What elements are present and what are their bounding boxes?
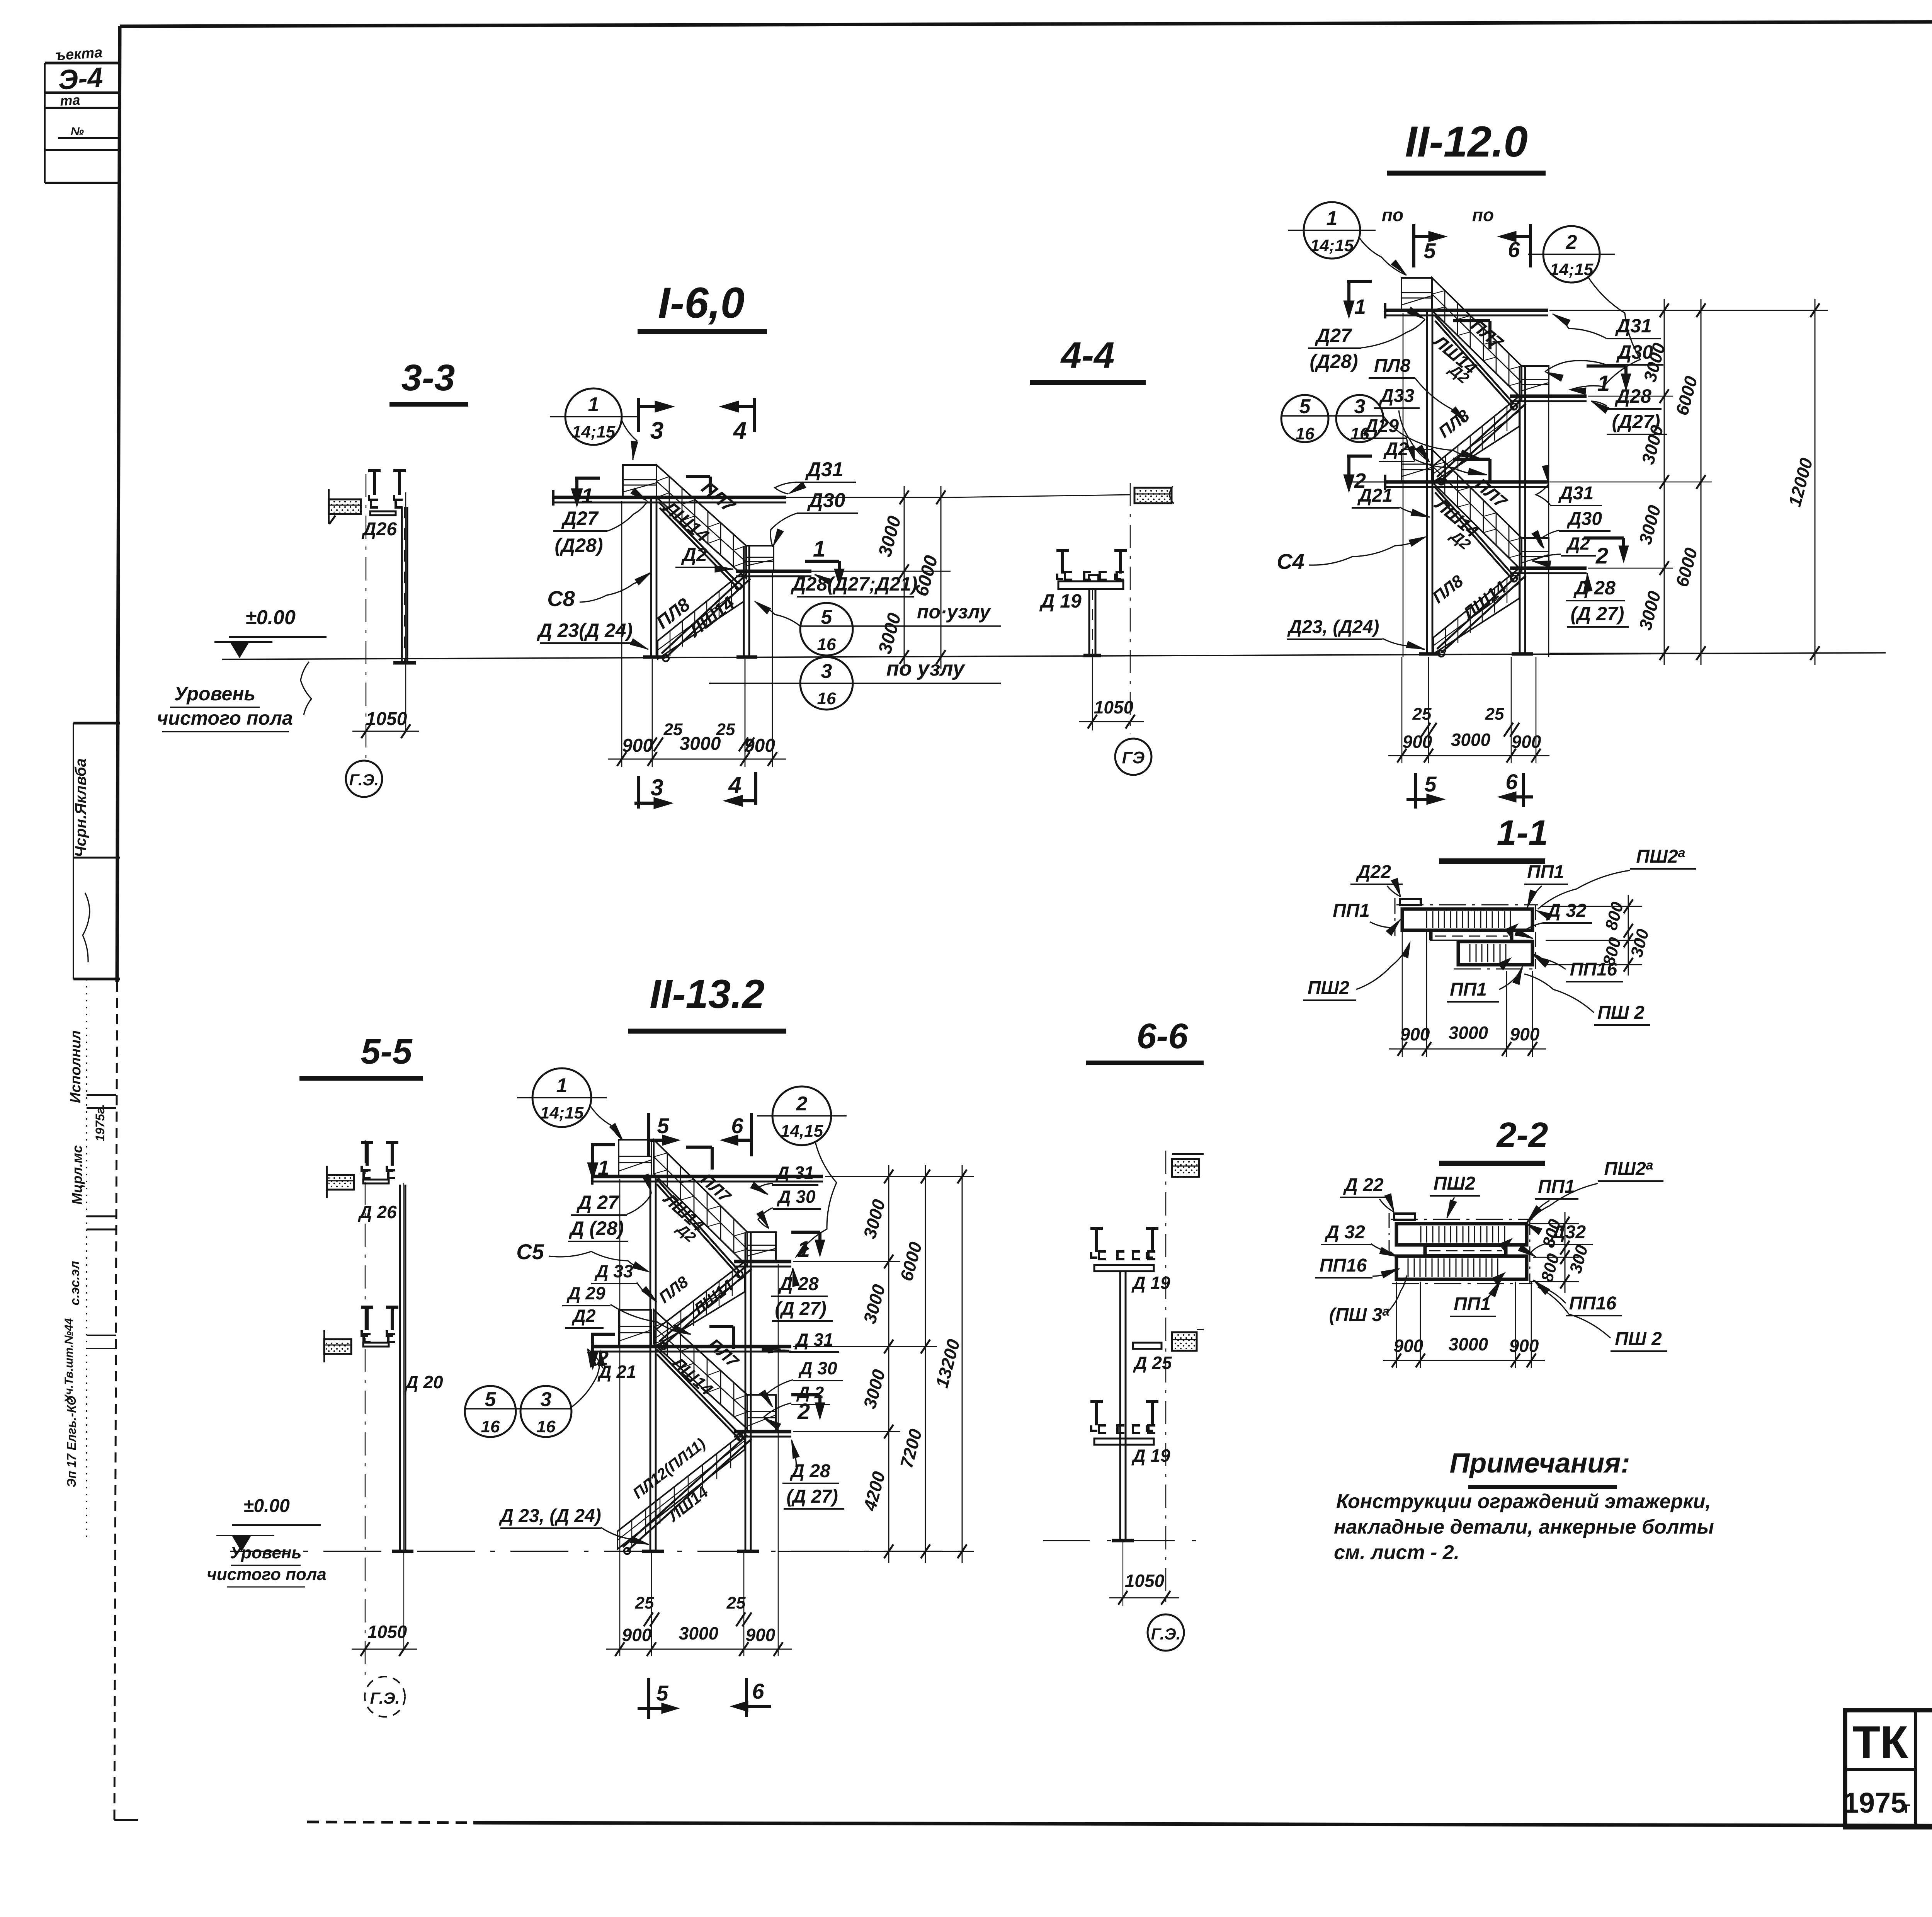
section mark 1 (right mid, pointing down)	[805, 536, 844, 586]
svg-text:3: 3	[650, 775, 663, 800]
middle platform beam	[736, 571, 811, 576]
platform beam cross-section (hatched) 4-4	[1134, 486, 1174, 504]
svg-text:6: 6	[752, 1679, 764, 1703]
drawing title II-12.0	[1387, 117, 1546, 173]
title block outer frame	[1845, 1710, 1932, 1827]
detail circle 2/14,15 II-13.2	[757, 1086, 847, 1258]
labels of 1-1 top right	[1524, 846, 1696, 920]
svg-text:6-6: 6-6	[1137, 1016, 1189, 1056]
axis circle G.E. 6-6	[1148, 1614, 1184, 1651]
title block TK cell	[1843, 1710, 1916, 1827]
svg-text:Д31: Д31	[1558, 483, 1594, 504]
ground line (floor level) under I-6.0 / II-12.0 / sections 3-3 and 4-4	[222, 653, 1886, 659]
flight 4 LSh20 long II-13.2	[617, 1432, 752, 1554]
svg-text:14;15: 14;15	[540, 1103, 584, 1122]
label D28(D27;D21)	[790, 573, 917, 597]
label D23,(D24) II-13.2	[498, 1506, 649, 1544]
svg-text:14,15: 14,15	[781, 1122, 823, 1141]
svg-text:3000: 3000	[1449, 1334, 1488, 1354]
labels D28 (D27) right II-13.2	[771, 1268, 833, 1321]
plate 5-5 mid	[363, 1343, 389, 1347]
labels D29 D2 II-13.2	[562, 1283, 691, 1334]
svg-text:16: 16	[817, 635, 836, 654]
svg-text:ПП1: ПП1	[1450, 979, 1487, 1000]
bottom dim extensions II-13.2	[651, 1553, 744, 1656]
svg-text:900: 900	[622, 735, 653, 756]
detail circle 2/14;15 of II-12.0	[1528, 226, 1640, 395]
svg-text:16: 16	[817, 689, 836, 708]
notes text	[1334, 1490, 1714, 1564]
dim 1050 6-6	[1109, 1542, 1179, 1606]
cut elbow mid II-13.2	[709, 1326, 733, 1349]
labels of 1-1 right	[1515, 901, 1650, 1025]
stair flight LSh14 lower (with rails PL8)	[658, 571, 750, 661]
svg-text:1975г.: 1975г.	[93, 1104, 107, 1142]
flight rotated labels story1 lower	[1435, 406, 1473, 441]
svg-text:Д 23(Д 24): Д 23(Д 24)	[537, 620, 633, 641]
section mark 6 bottom II-12.0	[1498, 770, 1533, 807]
svg-text:С5: С5	[516, 1239, 544, 1264]
label D33 II-12.0	[1374, 386, 1430, 462]
svg-text:Д 22: Д 22	[1343, 1175, 1384, 1195]
svg-text:ПШ2: ПШ2	[1434, 1173, 1476, 1194]
svg-text:2: 2	[1595, 543, 1608, 569]
label D19 of 4-4	[1039, 590, 1082, 612]
label D33 II-13.2	[591, 1261, 657, 1302]
svg-text:5: 5	[821, 606, 833, 628]
labels of 2-2 top	[1340, 1158, 1663, 1235]
labels of 2-2 right	[1518, 1222, 1667, 1351]
section mark 1 right II-13.2	[791, 1232, 825, 1262]
flight 1 LSh14 II-13.2	[654, 1140, 747, 1277]
svg-text:по: по	[1472, 205, 1494, 225]
svg-text:Уровень: Уровень	[174, 683, 255, 705]
top beam II-13.2	[591, 1169, 823, 1185]
small 25 offset dims	[648, 720, 754, 751]
drawing title I-6,0	[638, 279, 767, 332]
top landing box II-13.2	[619, 1140, 651, 1176]
labels of 1-1 left	[1303, 862, 1410, 1000]
cut elbow 2 inside II-12.0	[1453, 459, 1490, 483]
svg-text:Д33: Д33	[1379, 386, 1414, 406]
stair flight LSh14 upper (with rails PL7)	[656, 465, 746, 589]
top landing platform PSh2	[623, 465, 656, 497]
labels D31/D30 right top II-12.0	[1545, 314, 1663, 381]
label D23(D24)	[537, 620, 648, 649]
floor label 5-5	[207, 1543, 327, 1587]
svg-text:2: 2	[1566, 231, 1577, 254]
svg-text:1975: 1975	[1843, 1787, 1907, 1819]
svg-text:1050: 1050	[367, 1622, 407, 1642]
svg-text:та: та	[60, 92, 80, 109]
column right (under middle landing)	[744, 546, 749, 657]
node circle 3/16 with leader	[709, 657, 1001, 710]
section mark 1 left of II-12.0	[1344, 281, 1372, 318]
svg-text:ПШ2а: ПШ2а	[1604, 1158, 1653, 1179]
channel profiles pair 4-4	[1056, 550, 1127, 580]
svg-text:25: 25	[716, 720, 735, 739]
flight rotated labels story2 lower	[1429, 571, 1510, 624]
level-2 beam II-13.2	[591, 1339, 791, 1355]
svg-text:16: 16	[1296, 424, 1315, 443]
svg-text:3000: 3000	[1451, 730, 1491, 750]
label D27 (D28) left	[553, 488, 648, 556]
svg-text:(ПШ 3а: (ПШ 3а	[1329, 1304, 1389, 1325]
dim line 6000x2 II-12.0	[1672, 299, 1706, 665]
svg-text:4: 4	[733, 417, 747, 444]
drawing title II-13.2	[628, 972, 786, 1031]
small 25 dims II-13.2	[635, 1594, 752, 1626]
label C4 with wavy leader	[1277, 536, 1427, 574]
svg-text:900: 900	[622, 1625, 652, 1645]
dim extension lines II-13.2	[620, 1176, 974, 1656]
svg-text:ПП16: ПП16	[1320, 1255, 1367, 1276]
svg-text:ПП1: ПП1	[1454, 1294, 1491, 1314]
level mark +-0.00	[214, 606, 327, 657]
svg-text:Д (28): Д (28)	[569, 1217, 624, 1239]
cut elbow of section 1-1 inside I-6.0	[686, 477, 710, 493]
leader from circle 1 to top landing	[621, 419, 638, 460]
svg-text:Д30: Д30	[1566, 509, 1602, 529]
svg-text:3000: 3000	[1449, 1023, 1488, 1043]
labels D27 (D28) left II-12.0	[1308, 307, 1425, 372]
svg-text:чистого пола: чистого пола	[157, 707, 293, 729]
rotated flight labels II-13.2 upper	[659, 1170, 735, 1246]
svg-text:Д 23, (Д 24): Д 23, (Д 24)	[498, 1506, 601, 1526]
axis line of 3-3	[366, 474, 406, 763]
svg-text:5: 5	[656, 1681, 668, 1705]
label D26	[361, 519, 397, 540]
svg-text:Д 19: Д 19	[1131, 1273, 1170, 1293]
svg-text:2-2: 2-2	[1496, 1115, 1548, 1155]
svg-text:5: 5	[485, 1388, 497, 1411]
adjacent beam end hatched 5-5 top	[327, 1166, 354, 1198]
section title 2-2	[1439, 1115, 1548, 1163]
level-2 beam II-12.0	[1350, 475, 1548, 490]
label D30 with leader	[770, 489, 858, 547]
flight 1 LSh14 II-12.0	[1432, 278, 1522, 410]
section title 4-4	[1030, 335, 1146, 383]
detail circle 1/14;15 II-13.2	[517, 1068, 623, 1140]
section title 3-3	[389, 357, 468, 404]
platform plan assembly of 2-2	[1389, 1213, 1532, 1285]
detail circle 1/14;15 of II-12.0	[1288, 202, 1406, 275]
cut elbow top II-13.2	[686, 1147, 712, 1170]
svg-text:Мцрл.мс: Мцрл.мс	[69, 1145, 85, 1205]
svg-text:ПП1: ПП1	[1333, 901, 1370, 921]
top landing box II-12.0	[1401, 278, 1432, 310]
svg-text:Конструкции ограждений этаже: Конструкции ограждений этажерки,	[1336, 1490, 1711, 1513]
notes heading Primechaniya	[1449, 1448, 1630, 1487]
svg-text:II-13.2: II-13.2	[650, 972, 765, 1017]
mark po-6 (top)	[1472, 205, 1531, 267]
label D30 second right II-13.2	[759, 1358, 843, 1407]
svg-text:(Д 27): (Д 27)	[1571, 603, 1624, 625]
svg-text:Д 30: Д 30	[776, 1187, 816, 1207]
svg-text:Д2: Д2	[1383, 439, 1408, 460]
level-2 landing box II-13.2	[619, 1310, 651, 1347]
svg-text:ПЛ8: ПЛ8	[1374, 356, 1411, 376]
section mark 2 right II-13.2	[791, 1395, 825, 1424]
node circle 5/16 with leader	[754, 601, 1001, 655]
axis circle G.E. of 3-3	[346, 761, 382, 797]
section mark 1 left II-13.2	[587, 1145, 615, 1180]
svg-text:Г.Э.: Г.Э.	[1151, 1625, 1181, 1643]
svg-text:25: 25	[726, 1594, 746, 1612]
rotated flight labels II-13.2 f2	[655, 1272, 736, 1319]
svg-text:14;15: 14;15	[1550, 260, 1594, 279]
labels of 2-2 bottom	[1450, 1279, 1501, 1316]
svg-text:ПШ 2: ПШ 2	[1615, 1329, 1662, 1349]
hatched block top right 6-6	[1172, 1154, 1204, 1177]
mid landing 1 beam	[1510, 396, 1587, 401]
sheet frame bottom border	[307, 1822, 1932, 1827]
svg-text:1050: 1050	[1125, 1571, 1165, 1591]
label D2 left II-12.0	[1379, 439, 1487, 475]
svg-text:16: 16	[537, 1417, 556, 1436]
dim line 3000x4 II-12.0	[1635, 299, 1669, 665]
section mark 2 left of II-12.0	[1344, 456, 1372, 492]
svg-text:II-12.0: II-12.0	[1405, 117, 1528, 166]
svg-text:900: 900	[1510, 1024, 1540, 1044]
svg-text:(Д28): (Д28)	[1310, 351, 1358, 372]
svg-text:Д28(Д27;Д21): Д28(Д27;Д21)	[790, 573, 917, 595]
section mark 1 right mid II-12.0	[1587, 366, 1631, 396]
svg-text:С4: С4	[1277, 549, 1304, 574]
label PL8 II-12.0	[1369, 356, 1466, 422]
svg-text:по узлу: по узлу	[886, 657, 966, 680]
axis line of 4-4	[1130, 483, 1131, 734]
channel profiles assembly-1 6-6	[1090, 1228, 1158, 1271]
svg-text:25: 25	[635, 1594, 654, 1612]
mid landing 2 box II-13.2	[747, 1395, 776, 1432]
svg-text:1: 1	[1327, 207, 1338, 230]
svg-text:Д 19: Д 19	[1131, 1445, 1170, 1466]
vertical dimension line 6000	[912, 486, 946, 669]
svg-text:1: 1	[588, 393, 599, 416]
label D26 5-5	[357, 1202, 397, 1222]
svg-text:Д2: Д2	[681, 544, 707, 565]
flight 4 (down-left) II-12.0	[1433, 568, 1526, 657]
svg-text:14;15: 14;15	[1310, 236, 1354, 255]
mid landing 1 beam II-13.2	[734, 1262, 791, 1267]
svg-text:ГЭ: ГЭ	[1122, 748, 1145, 767]
svg-text:4: 4	[728, 772, 741, 798]
label D31 second right II-13.2	[762, 1330, 839, 1353]
dimension 1050 of 4-4	[1079, 657, 1144, 730]
section title 6-6	[1086, 1016, 1204, 1063]
ground line under 6-6 (dashed)	[1043, 1540, 1202, 1541]
svg-text:1-1: 1-1	[1497, 813, 1548, 853]
svg-text:Г.Э.: Г.Э.	[349, 771, 379, 789]
labels of 1-1 bottom	[1447, 966, 1522, 1002]
svg-text:16: 16	[1350, 424, 1369, 443]
svg-text:900: 900	[746, 1625, 776, 1645]
dimension extension lines II-12.0	[1403, 310, 1828, 657]
section mark 1 (left, cut 1-1)	[571, 478, 600, 508]
left margin lower stamp	[63, 723, 120, 1541]
flight 2 down-left II-13.2	[655, 1262, 752, 1349]
svg-text:1050: 1050	[366, 709, 407, 729]
svg-text:Д21: Д21	[1357, 485, 1393, 506]
svg-text:Д 20: Д 20	[404, 1372, 443, 1392]
adjacent beam end hatched 5-5 mid	[324, 1330, 351, 1362]
platform plan assembly of 1-1	[1395, 898, 1538, 970]
svg-text:Д27: Д27	[561, 507, 599, 529]
channel profiles mid 5-5	[361, 1307, 398, 1342]
axis line 6-6	[1165, 1151, 1167, 1604]
detail circle 1 / 14;15	[550, 388, 637, 445]
section mark 5 bottom II-12.0	[1406, 772, 1445, 809]
dim line 12000 II-12.0	[1784, 299, 1820, 665]
svg-text:3: 3	[541, 1388, 552, 1411]
svg-text:6: 6	[1505, 770, 1518, 794]
label D23,(D24) II-12.0	[1287, 617, 1425, 649]
column cap plate 4-4	[1058, 575, 1123, 589]
column of 5-5	[392, 1185, 413, 1551]
channel profiles atop column 3-3	[368, 471, 406, 507]
label D19 upper 6-6	[1131, 1273, 1170, 1293]
sheet frame top border	[120, 20, 1932, 26]
svg-text:Д27: Д27	[1315, 325, 1352, 346]
svg-text:Д 28: Д 28	[1573, 577, 1616, 599]
svg-text:I-6,0: I-6,0	[658, 279, 745, 327]
svg-text:1: 1	[798, 1237, 810, 1262]
flight 3 LSh14 II-12.0	[1432, 449, 1522, 582]
flight rotated labels story2	[1430, 474, 1511, 553]
section mark 3 (bottom)	[634, 775, 673, 809]
dim 1050 5-5	[352, 1622, 417, 1656]
svg-text:Д 29: Д 29	[566, 1283, 605, 1303]
svg-text:Д 25: Д 25	[1133, 1353, 1172, 1373]
bottom dims 900/3000/900 of 1-1	[1389, 932, 1546, 1057]
vertical dimension line 3000/3000	[875, 486, 909, 669]
right dims 800/300/800 of 1-1	[1542, 895, 1653, 976]
top platform beam II-12.0	[1384, 303, 1548, 318]
svg-text:5: 5	[1424, 772, 1437, 796]
column base feet II-13.2	[642, 1550, 759, 1553]
svg-text:накладные детали, анкерны: накладные детали, анкерные болты	[1334, 1516, 1714, 1538]
svg-text:Д2: Д2	[571, 1306, 596, 1326]
column C8 (left stand)	[651, 499, 656, 657]
svg-text:5: 5	[1299, 395, 1311, 418]
svg-text:Чсрн.Яклвба: Чсрн.Яклвба	[72, 758, 89, 857]
section mark 6 top II-13.2	[720, 1113, 752, 1156]
mid landing 2 beam	[1510, 568, 1587, 573]
dimension 1050 of 3-3	[352, 709, 419, 738]
top platform beam of I-6.0	[552, 490, 786, 506]
svg-text:1: 1	[813, 536, 825, 562]
mid landing 2 box	[1522, 538, 1549, 568]
labels D31 D30 right top II-13.2	[750, 1163, 821, 1228]
svg-text:(Д 27): (Д 27)	[786, 1486, 838, 1507]
svg-text:Г.Э.: Г.Э.	[370, 1689, 400, 1707]
svg-text:±0.00: ±0.00	[245, 606, 296, 629]
section title 1-1	[1439, 813, 1548, 861]
svg-text:Эп 17 Елгь.-КО: Эп 17 Елгь.-КО	[65, 1396, 78, 1487]
middle landing box	[746, 546, 774, 571]
label C8 stand with wavy leader	[547, 572, 651, 611]
dim line 3000x3+4200 II-13.2	[859, 1165, 893, 1563]
mark po-5 (top)	[1382, 205, 1447, 267]
bottom dim extensions II-12.0	[1402, 657, 1536, 763]
column right II-13.2	[745, 1232, 751, 1551]
bottom dims 900/3000/900 II-12.0	[1388, 730, 1549, 763]
section mark 6 bottom II-13.2	[730, 1678, 771, 1717]
svg-text:г: г	[1904, 1799, 1911, 1816]
flight 3 LSh14 II-13.2	[654, 1310, 747, 1440]
svg-text:№: №	[71, 125, 84, 138]
svg-text:ъекта: ъекта	[55, 44, 103, 64]
flight labels PL8 / LSh14 lower	[653, 593, 738, 642]
bottom dims 900/3000/900 II-13.2	[606, 1623, 792, 1656]
column base feet	[643, 655, 757, 659]
svg-text:1: 1	[556, 1074, 568, 1097]
labels D28 (D 27) right bottom II-12.0	[1566, 573, 1629, 627]
thin line from platform to section 4-4	[951, 495, 1130, 497]
column C5 left II-13.2	[650, 1178, 656, 1551]
svg-text:16: 16	[481, 1417, 500, 1436]
axis circle GE of 4-4	[1115, 739, 1151, 775]
svg-text:25: 25	[663, 720, 683, 739]
svg-text:14;15: 14;15	[572, 422, 616, 441]
label D19 lower 6-6	[1131, 1445, 1170, 1466]
plate D26 5-5	[363, 1180, 389, 1183]
section mark 3 (top)	[638, 398, 674, 444]
svg-text:3: 3	[1354, 395, 1366, 418]
section title 5-5	[299, 1032, 423, 1078]
svg-text:3: 3	[650, 417, 663, 444]
svg-text:Э-4: Э-4	[57, 62, 104, 96]
svg-text:Д26: Д26	[361, 519, 397, 540]
level mark 5-5	[216, 1496, 321, 1551]
svg-text:см. лист - 2.: см. лист - 2.	[1334, 1541, 1459, 1564]
svg-text:(Д 27): (Д 27)	[775, 1299, 826, 1319]
small 25 dims II-12.0	[1412, 705, 1519, 737]
left margin stamp boxes top	[45, 44, 120, 183]
plate D26	[370, 511, 396, 515]
svg-text:Д 31: Д 31	[775, 1163, 814, 1183]
column 6-6	[1112, 1271, 1134, 1541]
section mark 4 (top)	[719, 398, 754, 444]
svg-text:5: 5	[657, 1113, 669, 1138]
svg-text:25: 25	[1412, 705, 1432, 724]
svg-text:900: 900	[1400, 1024, 1430, 1044]
label C5 wavy leader	[516, 1239, 650, 1272]
svg-text:чистого пола: чистого пола	[207, 1565, 327, 1584]
svg-text:Д 30: Д 30	[798, 1358, 837, 1378]
svg-text:ПП1: ПП1	[1527, 862, 1564, 882]
column right II-12.0	[1520, 366, 1525, 654]
mid landing 1 box	[1522, 366, 1549, 396]
svg-text:900: 900	[1394, 1336, 1423, 1356]
flight labels PL7 / LSh14 upper	[659, 478, 739, 546]
channel profiles assembly-2 6-6	[1090, 1401, 1158, 1445]
bottom dims 900/3000/900 of 2-2	[1383, 1282, 1545, 1368]
svg-text:Уч.Тв.шт.№44: Уч.Тв.шт.№44	[63, 1318, 75, 1403]
labels D28 (D 27) bottom right II-13.2	[782, 1440, 844, 1509]
section mark 2 right mid II-12.0	[1584, 538, 1629, 569]
label D21 II-12.0	[1352, 485, 1430, 517]
svg-text:ПШ 2: ПШ 2	[1597, 1003, 1645, 1023]
svg-text:ТК: ТК	[1852, 1717, 1908, 1768]
svg-text:Д 32: Д 32	[1546, 901, 1587, 921]
cut elbow 1 inside II-12.0	[1453, 321, 1490, 349]
connector plate and hatched block mid 6-6	[1133, 1330, 1204, 1351]
label D2 with arrow	[675, 544, 733, 572]
svg-text:6: 6	[731, 1113, 743, 1138]
mid landing 1 box II-13.2	[747, 1232, 776, 1262]
